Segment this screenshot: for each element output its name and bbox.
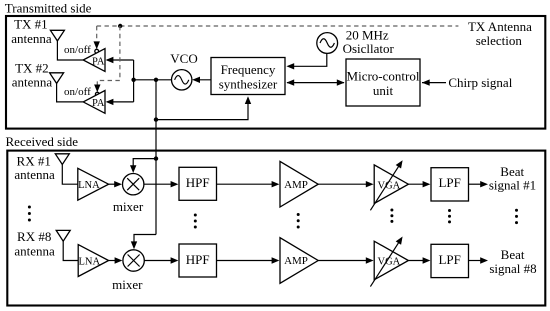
svg-text:20 MHz: 20 MHz (346, 27, 389, 42)
svg-text:synthesizer: synthesizer (219, 77, 278, 92)
svg-text:TX Antenna: TX Antenna (468, 19, 532, 34)
svg-text:antenna: antenna (12, 75, 53, 90)
svg-text:antenna: antenna (11, 31, 52, 46)
wire into PA1 (107, 59, 134, 61)
svg-text:mixer: mixer (112, 277, 143, 292)
PA1 on/off circle (95, 49, 99, 53)
svg-text:signal #8: signal #8 (489, 261, 536, 276)
LO wire into mixer1 (133, 159, 156, 168)
transmitted side box (6, 16, 545, 129)
wire HPF1 to AMP1 (217, 183, 274, 185)
svg-text:antenna: antenna (14, 244, 55, 259)
wire LPF2 out (469, 260, 482, 262)
wire VGA2 to LPF2 (408, 260, 425, 262)
HPF1 box (179, 167, 217, 200)
20 MHz oscillator (317, 33, 338, 54)
HPF2 box (179, 244, 217, 277)
wire HPF2 to AMP2 (217, 260, 274, 262)
TX #1 antenna symbol (50, 30, 64, 41)
svg-text:AMP: AMP (284, 179, 308, 191)
svg-text:HPF: HPF (186, 252, 210, 267)
svg-text:RX #8: RX #8 (17, 229, 51, 244)
mixer2 (123, 250, 144, 271)
dashed on/off route PA2 (97, 26, 120, 86)
junction feedback tap (154, 117, 158, 121)
VGA1 gain arrow (370, 166, 399, 211)
ellipsis AMP column (297, 213, 300, 216)
svg-text:TX #2: TX #2 (15, 61, 49, 76)
TX #2 antenna symbol (50, 73, 64, 84)
VGA2 (374, 241, 408, 280)
ellipsis antenna column (28, 206, 31, 209)
junction PA feed (131, 78, 135, 82)
wire into PA2 (107, 101, 134, 103)
RX #8 antenna symbol (56, 230, 70, 241)
wire LPF1 out (469, 183, 482, 185)
received side box (7, 151, 545, 306)
frequency synthesizer box (211, 58, 285, 95)
svg-text:signal #1: signal #1 (489, 177, 536, 192)
micro-control unit box (346, 59, 420, 106)
svg-text:mixer: mixer (113, 199, 144, 214)
svg-text:PA: PA (92, 56, 105, 67)
wire AMP1 to VGA1 (318, 183, 367, 185)
svg-text:HPF: HPF (186, 175, 210, 190)
wire antenna1 to PA1 (57, 41, 83, 60)
VGA2 gain arrow (370, 242, 399, 287)
svg-text:selection: selection (476, 33, 523, 48)
wire mixer2 to HPF2 (144, 260, 172, 262)
svg-text:TX #1: TX #1 (14, 16, 48, 31)
mixer1 (123, 174, 144, 195)
wire antenna RX1 to LNA1 (62, 165, 78, 185)
svg-text:Chirp signal: Chirp signal (448, 75, 512, 90)
chirp signal input (422, 82, 446, 84)
LNA1 (78, 168, 109, 200)
wire antenna RX8 to LNA2 (63, 241, 78, 260)
svg-text:PA: PA (92, 98, 105, 109)
dashed on/off arrow PA1 (96, 26, 98, 43)
svg-text:antenna: antenna (14, 167, 55, 182)
svg-text:LNA: LNA (78, 180, 100, 191)
svg-text:Received side: Received side (6, 134, 79, 149)
LO wire into mixer2 (134, 235, 156, 245)
svg-text:LPF: LPF (438, 175, 460, 190)
junction on dashed selection line (118, 24, 122, 28)
wire mixer1 to HPF1 (144, 183, 173, 185)
vertical PA feed wire (133, 60, 135, 102)
bidirectional wire synthesizer/micro-control (287, 82, 344, 84)
svg-text:Osicllator: Osicllator (343, 41, 395, 56)
LPF2 box (431, 244, 469, 277)
ellipsis beat column (515, 209, 518, 212)
svg-text:on/off: on/off (64, 86, 91, 98)
svg-text:LNA: LNA (79, 257, 101, 268)
AMP1 (280, 161, 318, 207)
ellipsis HPF column (194, 214, 197, 217)
svg-text:RX #1: RX #1 (17, 153, 51, 168)
LPF1 box (431, 168, 469, 201)
wire LNA1 to mixer1 (109, 183, 117, 185)
AMP2 (280, 238, 318, 284)
wire antenna2 to PA2 (57, 83, 84, 102)
wire junction to VCO (134, 79, 172, 81)
ellipsis LPF column (448, 209, 451, 212)
ellipsis VGA column (390, 209, 393, 212)
LNA2 (78, 245, 108, 277)
PA2 on/off circle (95, 92, 99, 96)
wire oscillator to synthesizer (288, 53, 327, 66)
svg-text:unit: unit (373, 83, 394, 98)
wire synthesizer to VCO (194, 79, 211, 81)
svg-text:Beat: Beat (501, 247, 525, 262)
wire AMP2 to VGA2 (318, 260, 367, 262)
junction LO to mixer1 (154, 156, 158, 160)
wire LNA2 to mixer2 (109, 260, 117, 262)
power amplifier PA2 (83, 91, 105, 114)
svg-text:on/off: on/off (64, 44, 91, 56)
RX #1 antenna symbol (55, 154, 69, 165)
svg-text:Transmitted side: Transmitted side (5, 1, 92, 16)
junction main LO tap (154, 78, 158, 82)
svg-text:Frequency: Frequency (221, 62, 276, 77)
wire VGA1 to LPF1 (408, 183, 425, 185)
svg-text:Micro-control: Micro-control (347, 69, 420, 84)
feedback wire to synthesizer (156, 102, 248, 120)
TX antenna selection dashed net (97, 25, 459, 27)
svg-text:LPF: LPF (438, 252, 460, 267)
svg-text:VCO: VCO (170, 51, 197, 66)
VGA1 (374, 165, 408, 204)
power amplifier PA1 (83, 49, 105, 72)
svg-text:AMP: AMP (284, 255, 308, 267)
main LO vertical wire (155, 80, 157, 235)
